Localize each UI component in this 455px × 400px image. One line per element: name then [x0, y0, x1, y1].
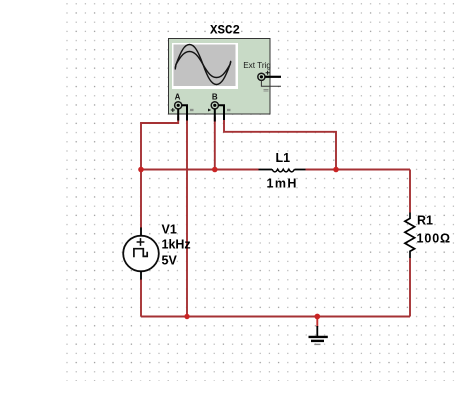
oscilloscope channel B minus mark [227, 109, 231, 110]
oscilloscope channel A pin stubs [178, 105, 187, 120]
inductor L1 coil [272, 169, 294, 172]
node junction B- / mid rail [333, 167, 339, 173]
svg-text:5V: 5V [162, 254, 178, 268]
wire bottom rail [141, 316, 410, 318]
oscilloscope channel A minus mark [190, 109, 194, 110]
source V1 labels [162, 223, 191, 268]
svg-text:1kHz: 1kHz [162, 237, 191, 251]
wire B- down, right, down to mid rail [224, 117, 336, 170]
node junction A- / bottom rail [184, 314, 189, 319]
svg-text:XSC2: XSC2 [210, 24, 240, 38]
oscilloscope waveform trace outer [175, 45, 231, 85]
inductor L1 pin stubs [259, 169, 306, 171]
resistor R1 labels [417, 213, 451, 245]
node junction B+ / mid rail [212, 167, 218, 173]
wire B+ vertical to mid rail [214, 117, 216, 170]
source V1 pin stubs [140, 228, 142, 280]
resistor R1 body [405, 213, 415, 259]
svg-text:L1: L1 [276, 151, 291, 165]
oscilloscope Ext Trig pin stub [265, 76, 281, 78]
svg-text:V1: V1 [162, 223, 177, 237]
oscilloscope channel A terminal [171, 102, 182, 112]
inductor L1 labels [267, 151, 298, 191]
ground symbol [309, 326, 328, 344]
svg-text:Ext Trig: Ext Trig [243, 61, 271, 70]
wire mid rail right of L1 to right corner [306, 169, 411, 171]
oscilloscope channel B terminal [208, 102, 218, 112]
wire ground stub [316, 317, 318, 328]
oscilloscope XSC2 body [169, 39, 271, 115]
svg-text:A: A [175, 93, 181, 102]
source V1 circle [123, 236, 159, 272]
wire A+ to left rail (scope A+ down, left, down to V1 top) [141, 117, 178, 229]
svg-text:B: B [212, 93, 218, 102]
node junction ground / bottom rail [314, 314, 320, 320]
oscilloscope screen [172, 43, 238, 89]
oscilloscope waveform trace inner [175, 52, 231, 78]
svg-text:100Ω: 100Ω [417, 231, 451, 245]
oscilloscope Ext Trig minus mark [264, 90, 269, 91]
svg-text:1mH: 1mH [267, 177, 298, 191]
wire right rail above R1 [409, 170, 411, 213]
oscilloscope Ext Trig lower stub [261, 81, 281, 87]
node junction left rail / mid rail [138, 167, 144, 173]
wire right rail below R1 [409, 258, 411, 317]
oscilloscope Ext Trig terminal [258, 71, 270, 81]
wire A- vertical to bottom rail [186, 117, 188, 317]
wire mid rail left of L1 [141, 169, 259, 171]
oscilloscope channel B pin stubs [215, 105, 224, 121]
svg-text:R1: R1 [417, 213, 433, 227]
wire V1 bottom to bottom-left corner [140, 279, 142, 317]
